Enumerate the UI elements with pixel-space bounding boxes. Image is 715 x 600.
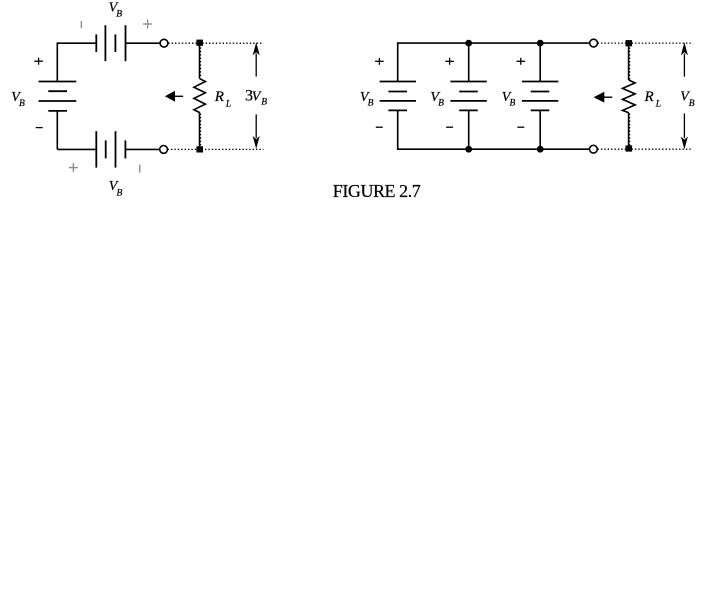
svg-text:B: B xyxy=(117,189,123,199)
svg-text:L: L xyxy=(655,99,661,109)
svg-text:B: B xyxy=(368,99,374,109)
svg-text:B: B xyxy=(116,10,122,20)
svg-text:B: B xyxy=(510,99,516,109)
svg-text:B: B xyxy=(19,99,25,109)
svg-text:B: B xyxy=(689,99,695,109)
svg-text:FIGURE 2.7: FIGURE 2.7 xyxy=(333,181,421,201)
svg-text:L: L xyxy=(225,100,231,110)
svg-text:R: R xyxy=(644,89,654,105)
svg-text:B: B xyxy=(438,99,444,109)
svg-text:R: R xyxy=(214,89,224,105)
svg-text:B: B xyxy=(261,98,267,108)
svg-text:V: V xyxy=(252,89,262,104)
